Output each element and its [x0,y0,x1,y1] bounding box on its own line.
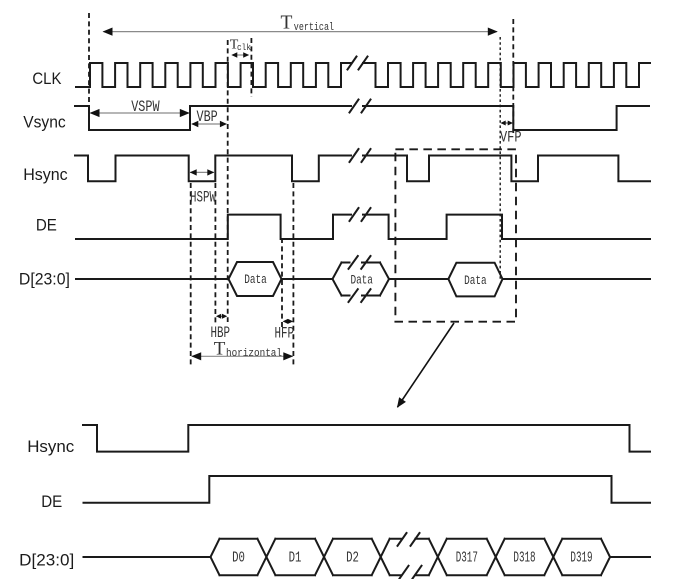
svg-text:Hsync: Hsync [27,437,74,456]
VSPW label [131,98,160,116]
Vsync waveform right of break [363,106,649,130]
svg-text:VFP: VFP [500,129,522,147]
svg-text:Vsync: Vsync [23,112,66,131]
zoom pointer arrow [398,323,455,407]
VFP arrow [500,121,513,126]
bottom data lane outline [211,539,611,576]
bottom D[23:0] baseline right [610,556,650,558]
signal label DE [36,215,57,234]
DE waveform right of break [363,215,650,239]
svg-text:DE: DE [41,492,62,511]
bottom Hsync waveform [83,425,650,452]
svg-text:VSPW: VSPW [131,98,160,116]
svg-text:HSPW: HSPW [190,189,216,207]
svg-text:Data: Data [350,274,373,288]
HSPW label [190,189,216,207]
svg-text:D[23:0]: D[23:0] [19,551,74,570]
svg-text:clk: clk [237,42,251,53]
signal label Vsync [23,112,66,131]
Tclk label [230,37,252,53]
dashed guide x=282 [281,238,283,327]
dashed guide x=89 top [88,13,90,106]
svg-text:DE: DE [36,215,57,234]
cell label D1 [289,550,302,567]
D[23:0] baseline right [503,278,651,280]
svg-text:Data: Data [244,273,267,287]
Thorizontal label [214,339,282,361]
svg-text:horizontal: horizontal [226,348,282,360]
svg-text:vertical: vertical [294,22,334,34]
signal label Hsync [23,165,68,184]
cell label D317 [456,550,478,567]
data hexagon 1 [229,262,282,296]
VSPW arrow [91,112,189,114]
VBP arrow [192,123,227,125]
cell label D318 [513,550,535,567]
data hexagon 2 with break [333,256,390,302]
svg-text:T: T [281,12,293,33]
CLK waveform right of break [363,63,650,87]
HFP label [275,325,295,343]
D[23:0] baseline between hex2 and hex3 [389,278,448,280]
signal label D[23:0] [19,270,70,289]
svg-text:T: T [214,339,226,360]
svg-text:D317: D317 [456,550,478,567]
svg-text:Data: Data [464,274,487,288]
svg-text:D[23:0]: D[23:0] [19,270,70,289]
cell label D319 [570,550,592,567]
svg-text:VBP: VBP [197,108,218,126]
svg-text:D1: D1 [289,550,302,567]
signal label CLK [32,69,62,88]
svg-text:D318: D318 [513,550,535,567]
Tvertical label [281,12,335,34]
CLK waveform left of break [76,63,351,87]
DE break slashes [350,208,371,221]
Tclk arrow [231,52,249,57]
bottom D[23:0] baseline left [84,556,211,558]
bottom DE waveform [84,476,651,503]
D[23:0] baseline left [76,278,229,280]
DE waveform left of break [76,215,351,239]
Hsync waveform right of break [363,156,650,182]
svg-text:D319: D319 [570,550,592,567]
bottom data break slashes [398,533,422,579]
VBP label [197,108,218,126]
Hsync break slashes [350,149,371,162]
HFP arrow [283,319,294,324]
svg-text:Hsync: Hsync [23,165,68,184]
Vsync break slashes [350,100,371,113]
VFP label [500,129,522,147]
svg-text:HFP: HFP [275,325,295,343]
dashed guide x=251.4 Tclk right [250,38,252,97]
Thorizontal arrow [192,355,292,357]
bottom signal label Hsync [27,437,74,456]
HSPW arrow [190,171,214,173]
cell label D0 [232,550,245,567]
D[23:0] baseline between hex1 and hex2 [282,278,333,280]
HBP label [211,324,231,342]
dashed guide x=513.3 [512,19,514,133]
Hsync waveform left of break [75,156,351,182]
CLK break slashes [348,57,368,70]
svg-text:D2: D2 [346,550,359,567]
dotted guide x=500.2 [499,37,501,280]
data hexagon 3 [448,263,502,297]
Tvertical arrow [104,31,497,33]
bottom signal label D[23:0] [19,551,74,570]
dashed guide x=215.4 [214,183,216,324]
dashed zoom rectangle [395,149,516,321]
dashed guide x=227.7 tall [227,40,229,322]
cell label D2 [346,550,359,567]
dashed guide x=293.4 [292,183,294,367]
svg-text:CLK: CLK [32,69,62,88]
svg-text:D0: D0 [232,550,245,567]
HBP arrow [216,314,227,319]
bottom signal label DE [41,492,62,511]
dashed guide x=190.7 [190,183,192,367]
Vsync waveform left of break [75,106,351,130]
